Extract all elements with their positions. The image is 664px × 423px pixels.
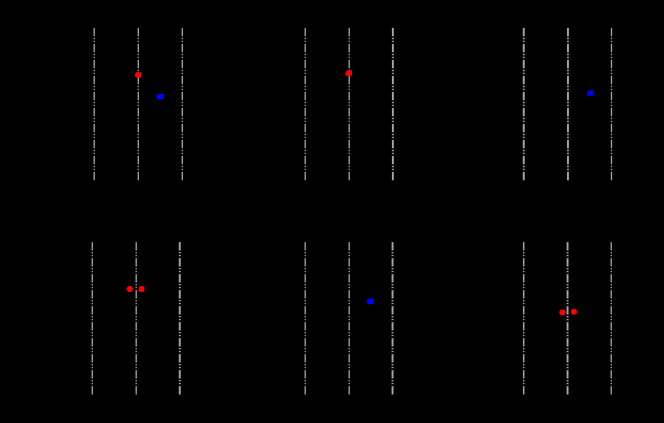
subplot D red marker left tip (138, 289, 140, 292)
subplot F (bottom-right) dashed gridline 1 (523, 242, 525, 395)
subplot A red marker (circle) (135, 72, 141, 78)
subplot E (bottom-middle) dashed gridline 1 (304, 242, 306, 395)
subplot E blue marker (square) (368, 299, 373, 304)
subplot B dashed gridline 2 (348, 28, 350, 182)
subplot E blue marker (circle) (367, 298, 373, 304)
subplot A blue marker (circle) (156, 94, 162, 100)
subplot D red circle marker (127, 286, 133, 292)
subplot D red square marker (139, 286, 144, 292)
subplot C dashed gridline 3 (611, 28, 613, 182)
subplot F red marker right (circle) (571, 309, 577, 315)
subplot B red marker (square) (347, 70, 352, 75)
subplot C blue marker (square) (588, 90, 593, 95)
subplot B (top-middle) dashed gridline 1 (304, 28, 306, 182)
subplot D dashed gridline 3 (double) (179, 242, 181, 395)
subplot F dashed gridline 3 (610, 242, 612, 395)
subplot E dashed gridline 3 (double) (392, 242, 394, 395)
subplot B dashed gridline 3 (double) (392, 28, 394, 182)
subplot A dashed gridline 3 (181, 28, 183, 182)
subplot C blue marker (circle behind) (587, 90, 593, 96)
subplot A blue marker (square) (158, 94, 163, 99)
subplot E dashed gridline 2 (348, 242, 350, 395)
subplot C (top-right) dashed gridline 1 (double) (523, 28, 525, 182)
subplot F red marker left (circle) (559, 309, 565, 315)
subplot B red marker (circle) (345, 71, 351, 77)
subplot A red marker (square) (136, 72, 141, 77)
subplot C dashed gridline 2 (double) (567, 28, 569, 182)
subplot D dashed gridline 2 (135, 242, 137, 395)
subplot A (top-left) dashed gridline 1 (93, 28, 95, 182)
subplot F dashed gridline 2 (double) (567, 242, 569, 395)
subplot A dashed gridline 2 (137, 28, 139, 182)
subplot D (bottom-left) dashed gridline 1 (91, 242, 93, 395)
subplot F red marker left tip (559, 312, 561, 314)
